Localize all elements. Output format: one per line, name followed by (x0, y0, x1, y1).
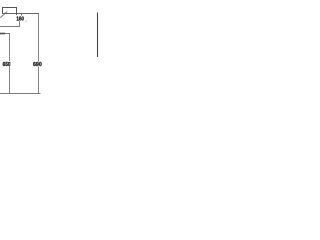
svg-text:690: 690 (33, 62, 42, 68)
wall section rectangle (3, 8, 17, 14)
wall top line (2, 13, 39, 15)
wall section right edge stub (16, 14, 18, 16)
thick stub on extension line (0, 33, 5, 35)
bottom horizontal line (0, 93, 41, 95)
svg-text:160: 160 (16, 17, 24, 23)
leader line for 160 (0, 21, 20, 27)
diagonal hatch line (0, 12, 7, 18)
middle dimension line upper part (38, 14, 40, 62)
small tick near label (26, 21, 27, 22)
tick mark (21, 14, 23, 16)
right vertical line (97, 13, 99, 58)
extension line corner (0, 34, 10, 62)
left dimension line lower part (9, 67, 11, 94)
middle dimension line lower part (38, 67, 40, 94)
